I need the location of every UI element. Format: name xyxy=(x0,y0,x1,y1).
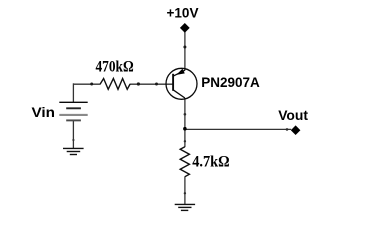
svg-text:Vout: Vout xyxy=(278,107,308,123)
svg-text:Vin: Vin xyxy=(32,105,56,121)
svg-text:PN2907A: PN2907A xyxy=(201,74,259,90)
svg-text:470kΩ: 470kΩ xyxy=(96,58,134,75)
svg-text:+10V: +10V xyxy=(167,5,199,20)
svg-text:4.7kΩ: 4.7kΩ xyxy=(192,153,230,170)
